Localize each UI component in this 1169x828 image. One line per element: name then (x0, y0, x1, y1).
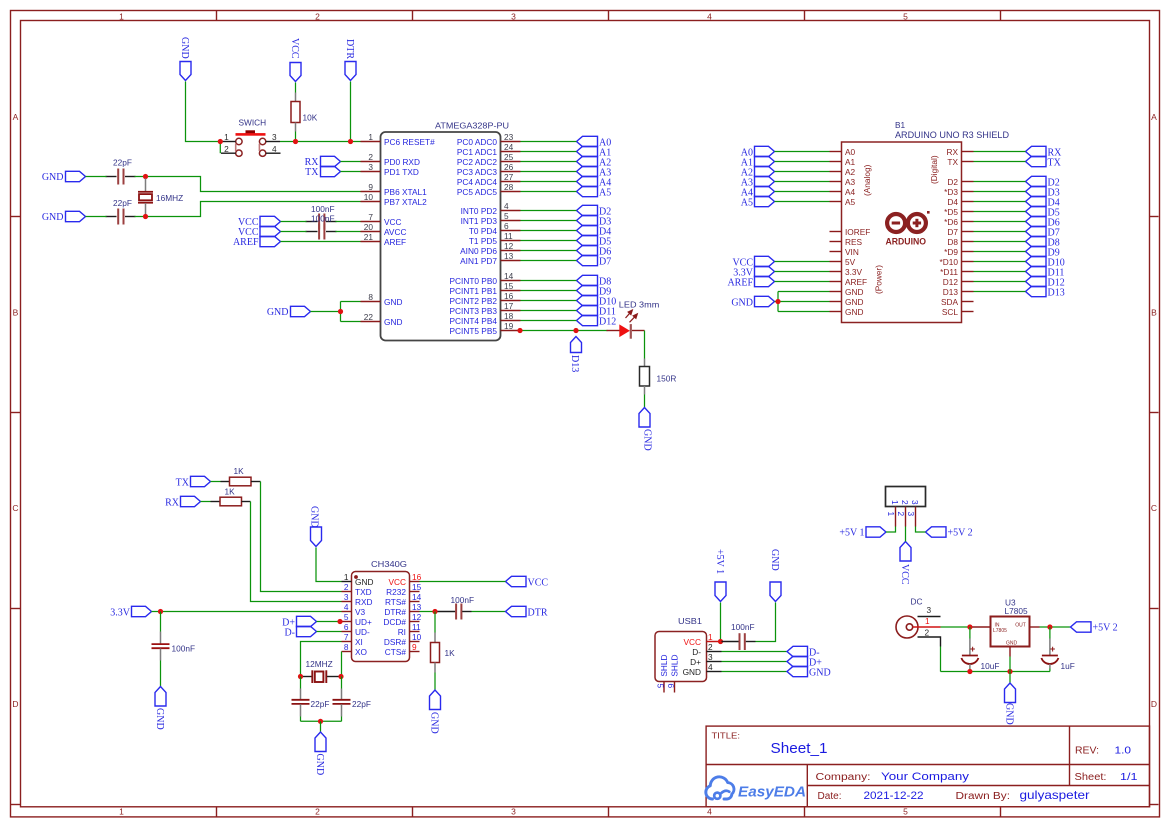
svg-text:Date:: Date: (818, 791, 842, 802)
svg-text:21: 21 (364, 232, 374, 242)
svg-text:D13: D13 (943, 287, 959, 297)
wire XO to crystal (341, 652, 343, 677)
svg-text:TX: TX (176, 478, 190, 489)
connector B1 body (842, 142, 962, 323)
svg-text:14: 14 (412, 592, 422, 602)
pin 9 PB6 XTAL1 (361, 182, 428, 197)
svg-text:RXD: RXD (355, 597, 373, 607)
svg-text:PCINT2 PB2: PCINT2 PB2 (450, 296, 498, 306)
svg-text:19: 19 (504, 321, 514, 331)
svg-text:2: 2 (315, 807, 320, 817)
svg-text:9: 9 (412, 642, 417, 652)
svg-text:17: 17 (504, 301, 514, 311)
junction D+ (337, 619, 342, 624)
pin 16 VCC (388, 572, 421, 587)
svg-text:AREF: AREF (845, 277, 867, 287)
svg-text:GND: GND (384, 317, 402, 327)
resistor R? 150R (640, 359, 677, 395)
svg-text:RI: RI (398, 627, 406, 637)
port GND (CH340 pin1) (309, 506, 322, 547)
svg-text:DTR: DTR (344, 39, 355, 59)
frame column numbers bottom (119, 807, 908, 817)
ports A0-A5 (shield left) (741, 146, 775, 208)
svg-text:1: 1 (368, 132, 373, 142)
svg-text:1: 1 (119, 12, 124, 22)
svg-text:1: 1 (119, 807, 124, 817)
svg-text:12MHZ: 12MHZ (306, 659, 333, 669)
pin 10 DSR# (384, 632, 422, 647)
svg-text:GND: GND (154, 708, 165, 730)
svg-text:22: 22 (364, 312, 374, 322)
pin 13 AIN1 PD7 (460, 251, 520, 266)
svg-text:D12: D12 (943, 277, 959, 287)
resistor R? 1K (TX) (211, 466, 261, 486)
svg-text:2: 2 (224, 144, 229, 154)
connector H? 1x3 header body (886, 487, 926, 507)
svg-text:Drawn By:: Drawn By: (956, 791, 1011, 802)
pin 3 RXD (342, 592, 373, 607)
wire DTR# to port (420, 611, 438, 613)
svg-text:5: 5 (903, 807, 908, 817)
wire GND down to cap (756, 603, 776, 642)
svg-text:14: 14 (504, 271, 514, 281)
svg-text:SDA: SDA (941, 297, 959, 307)
svg-text:TITLE:: TITLE: (712, 731, 741, 741)
junction D13 tap (573, 328, 578, 333)
capacitor C? 10uF polarized (961, 627, 999, 672)
frame column numbers top (119, 12, 908, 22)
wire 3.3V to V3 pin (152, 611, 342, 613)
frame ticks top (217, 11, 1001, 21)
svg-text:10: 10 (412, 632, 422, 642)
svg-text:D13: D13 (1048, 288, 1065, 299)
capacitor C? 22pF (bottom) (106, 198, 136, 225)
svg-text:GND: GND (845, 307, 863, 317)
junction rail reg gnd (1007, 669, 1012, 674)
pin 10 PB7 XTAL2 (361, 192, 428, 207)
pin 6 UD- (342, 622, 370, 637)
svg-text:D2: D2 (947, 177, 958, 187)
svg-text:VCC: VCC (528, 578, 549, 589)
svg-text:T0 PD4: T0 PD4 (469, 226, 498, 236)
port GND (under 22pF) (314, 732, 326, 775)
svg-text:CTS#: CTS# (385, 647, 407, 657)
ports D2-D13 (shield right) (1026, 176, 1065, 298)
svg-text:T1 PD5: T1 PD5 (469, 236, 498, 246)
svg-text:LED 3mm: LED 3mm (619, 300, 660, 310)
port GND (below 150R) (639, 408, 653, 451)
svg-text:12: 12 (504, 241, 514, 251)
header pin numbers 1,2,3 (rotated, outside) (886, 512, 916, 517)
svg-text:20: 20 (364, 222, 374, 232)
wires GND to three shield pins (775, 292, 830, 312)
svg-text:2: 2 (900, 500, 910, 505)
wire 1K to GND (434, 673, 436, 691)
pin 15 PCINT1 PB1 (450, 281, 521, 296)
wire XI to crystal (301, 642, 342, 677)
svg-text:D-: D- (284, 628, 295, 639)
port DTR (right) (506, 606, 548, 618)
svg-text:A5: A5 (599, 188, 611, 199)
B1 right pin names (940, 147, 959, 317)
svg-text:GND: GND (1004, 703, 1015, 725)
svg-text:3: 3 (927, 605, 932, 615)
wire gnd vertical (340, 302, 342, 322)
wire switch pin2 drop (219, 142, 221, 154)
connector DC jack (896, 597, 941, 647)
wire cap to corner row1 (135, 177, 361, 192)
svg-text:22pF: 22pF (352, 699, 371, 709)
svg-text:IOREF: IOREF (845, 227, 870, 237)
pin 27 PC4 ADC4 (457, 172, 521, 187)
junction rail 10uF (967, 669, 972, 674)
ports D2-D7 (577, 205, 612, 267)
svg-text:L7805: L7805 (993, 628, 1007, 634)
pin 2 D- (USB) (692, 642, 721, 657)
svg-text:3.3V: 3.3V (110, 608, 131, 619)
wire gnd-cap row2 (86, 216, 107, 218)
port GND (under 1K) (429, 690, 441, 734)
svg-text:Sheet_1: Sheet_1 (771, 740, 828, 757)
chip U1 ATMEGA328P-PU body (381, 132, 501, 341)
header pin names 1,2,3 (rotated, inside) (890, 500, 920, 505)
wire gnd bottom rail (941, 671, 1050, 673)
junction regulator out (1047, 624, 1052, 629)
ports D8-D12 (577, 275, 617, 327)
Arduino logo U? (886, 211, 930, 247)
svg-text:+5V 1: +5V 1 (714, 549, 725, 574)
svg-text:INT1 PD3: INT1 PD3 (461, 216, 498, 226)
svg-text:22pF: 22pF (113, 198, 132, 208)
svg-text:INT0 PD2: INT0 PD2 (461, 206, 498, 216)
wire VCC to 10K (295, 83, 297, 93)
svg-text:DTR: DTR (528, 608, 548, 619)
junction 3.3V cap tap (158, 609, 163, 614)
svg-text:5: 5 (656, 684, 666, 689)
wire LED down to resistor (644, 331, 646, 359)
pin 15 R232 (386, 582, 421, 597)
svg-text:3: 3 (708, 652, 713, 662)
port VCC (pin20) (238, 226, 281, 238)
wires ADC pins to A ports (521, 142, 577, 192)
svg-text:GND: GND (179, 37, 190, 59)
port TX (to ATMEGA pin3) (305, 166, 340, 178)
svg-text:1: 1 (344, 572, 349, 582)
svg-text:PC4 ADC4: PC4 ADC4 (457, 177, 498, 187)
port 3.3V (110, 606, 151, 618)
svg-text:A3: A3 (845, 177, 856, 187)
svg-text:3: 3 (272, 132, 277, 142)
svg-text:4: 4 (272, 144, 277, 154)
svg-text:PCINT4 PB4: PCINT4 PB4 (450, 316, 498, 326)
svg-text:Company:: Company: (816, 772, 871, 783)
svg-text:TX: TX (1048, 158, 1062, 169)
svg-text:4: 4 (707, 807, 712, 817)
svg-text:100nF: 100nF (172, 644, 196, 654)
junction gnd (338, 309, 343, 314)
svg-text:1K: 1K (225, 487, 236, 497)
svg-text:PC1 ADC1: PC1 ADC1 (457, 147, 498, 157)
svg-text:D: D (1151, 699, 1157, 709)
svg-text:*D10: *D10 (940, 257, 959, 267)
svg-text:23: 23 (504, 132, 514, 142)
junction crystal right (338, 674, 343, 679)
svg-text:AIN1 PD7: AIN1 PD7 (460, 256, 497, 266)
svg-text:*D6: *D6 (944, 217, 958, 227)
junction crystal left (298, 674, 303, 679)
svg-text:VCC: VCC (289, 38, 300, 59)
B1 left pin names (845, 147, 870, 317)
svg-text:GND: GND (309, 506, 320, 528)
svg-text:GND: GND (384, 297, 402, 307)
svg-text:1K: 1K (445, 648, 456, 658)
pin 23 PC0 ADC0 (457, 132, 521, 147)
svg-text:5: 5 (903, 12, 908, 22)
svg-text:1: 1 (708, 632, 713, 642)
svg-text:1: 1 (886, 512, 896, 517)
regulator U3 L7805 body (972, 598, 1040, 657)
svg-text:27: 27 (504, 172, 514, 182)
svg-text:16: 16 (412, 572, 422, 582)
svg-text:VCC: VCC (899, 564, 910, 585)
svg-text:GND: GND (42, 172, 64, 183)
svg-text:A: A (13, 112, 19, 122)
pin 4 GND (USB) (683, 662, 722, 677)
svg-text:RES: RES (845, 237, 863, 247)
resistor R? 1K (RX) (201, 487, 251, 506)
svg-text:D7: D7 (599, 257, 611, 268)
svg-text:24: 24 (504, 142, 514, 152)
svg-text:GND: GND (1006, 641, 1018, 647)
svg-text:7: 7 (344, 632, 349, 642)
port GND (crystal bottom) (42, 211, 86, 223)
wire header pin2 to VCC (905, 527, 907, 542)
svg-text:2021-12-22: 2021-12-22 (864, 790, 924, 802)
ports RX TX (shield right) (1026, 146, 1063, 168)
svg-text:2: 2 (708, 642, 713, 652)
wires power ports to shield (775, 262, 830, 282)
wire cap20 to pin (336, 231, 361, 233)
svg-text:GND: GND (314, 754, 325, 776)
port GND (pins 8/22) (267, 306, 311, 318)
svg-text:GND: GND (267, 307, 289, 318)
svg-text:C: C (12, 503, 18, 513)
wire to pin8 (341, 301, 361, 303)
port RX (1K input) (165, 496, 200, 508)
wire gnd-cap row1 (86, 176, 107, 178)
svg-text:4: 4 (707, 12, 712, 22)
wire switch pin3 to pin1 row (280, 141, 361, 143)
svg-text:GND: GND (769, 549, 780, 571)
wire VCC row20 (281, 231, 307, 233)
svg-text:8: 8 (368, 292, 373, 302)
wires A0-A5 to shield (775, 152, 830, 202)
frame ticks left (11, 217, 21, 805)
wire GND to junction (311, 311, 341, 313)
port D- (284, 626, 316, 638)
svg-text:+5V 2: +5V 2 (1093, 623, 1118, 634)
svg-text:(Digital): (Digital) (929, 155, 939, 184)
svg-text:2: 2 (344, 582, 349, 592)
svg-text:RTS#: RTS# (385, 597, 406, 607)
svg-text:3: 3 (511, 12, 516, 22)
junction regulator in (967, 624, 972, 629)
svg-text:5: 5 (504, 211, 509, 221)
svg-text:3: 3 (906, 512, 916, 517)
svg-text:9: 9 (368, 182, 373, 192)
svg-text:1K: 1K (234, 466, 245, 476)
svg-text:6: 6 (344, 622, 349, 632)
title block frame (706, 726, 1149, 807)
connector USB1 body (655, 632, 707, 682)
svg-text:DC: DC (911, 597, 923, 607)
wires USB data pins to ports (722, 652, 788, 672)
wire +5V1 down to VCC pin (720, 603, 722, 642)
wire DC pin2 down to rail (940, 647, 942, 672)
svg-text:L7805: L7805 (1005, 606, 1028, 616)
pin 1 GND (342, 572, 374, 587)
pin 1 PC6 RESET# (361, 132, 436, 147)
svg-text:PC6 RESET#: PC6 RESET# (384, 137, 435, 147)
svg-text:(Analog): (Analog) (862, 164, 872, 196)
svg-text:3: 3 (511, 807, 516, 817)
port D+ (USB right) (787, 656, 822, 668)
svg-text:TX: TX (947, 157, 958, 167)
header pin stubs 1,2,3 (896, 507, 916, 527)
svg-text:GND: GND (845, 297, 863, 307)
svg-text:Your Company: Your Company (881, 771, 970, 783)
svg-text:TX: TX (305, 167, 319, 178)
wire RX (341, 161, 361, 163)
pin 2 PD0 RXD (361, 152, 420, 167)
svg-text:13: 13 (412, 602, 422, 612)
wire GND to switch row (186, 82, 220, 142)
svg-text:VIN: VIN (845, 247, 859, 257)
svg-text:150R: 150R (657, 374, 677, 384)
svg-text:11: 11 (504, 231, 513, 241)
svg-text:4: 4 (344, 602, 349, 612)
svg-text:6: 6 (666, 684, 676, 689)
svg-text:2: 2 (315, 12, 320, 22)
svg-text:AREF: AREF (233, 237, 259, 248)
svg-text:D8: D8 (947, 237, 958, 247)
svg-text:D4: D4 (947, 197, 958, 207)
svg-text:1/1: 1/1 (1120, 771, 1138, 783)
svg-text:DTR#: DTR# (384, 607, 406, 617)
svg-text:PB6 XTAL1: PB6 XTAL1 (384, 187, 427, 197)
svg-text:D7: D7 (947, 227, 958, 237)
svg-text:DCD#: DCD# (383, 617, 406, 627)
capacitor C? 100nF (DTR) (438, 595, 506, 620)
frame row letters left (12, 112, 18, 709)
svg-text:3: 3 (368, 162, 373, 172)
wire RX 1K to RXD pin (251, 502, 342, 602)
svg-text:1uF: 1uF (1061, 661, 1075, 671)
svg-text:VCC: VCC (388, 577, 406, 587)
svg-text:*D11: *D11 (940, 267, 958, 277)
svg-text:*D3: *D3 (944, 187, 958, 197)
svg-text:10uF: 10uF (981, 661, 1000, 671)
svg-text:GND: GND (429, 712, 440, 734)
svg-text:12: 12 (412, 612, 422, 622)
pin 5 INT1 PD3 (461, 211, 521, 226)
svg-text:D13: D13 (569, 355, 580, 372)
pin 6 T0 PD4 (469, 221, 521, 236)
capacitor C? 22pF (left) (292, 677, 330, 722)
switch SWICH (221, 118, 281, 157)
B1 right pin stubs (962, 152, 974, 312)
resistor R? 1K (DTR pulldown) (431, 612, 456, 673)
pin 11 RI (398, 622, 421, 637)
svg-text:VCC: VCC (683, 637, 701, 647)
port VCC (top) (289, 38, 301, 82)
svg-text:gulyaspeter: gulyaspeter (1020, 788, 1090, 802)
wire regulator out (1040, 626, 1071, 628)
svg-text:A2: A2 (845, 167, 856, 177)
pin 2 TXD (342, 582, 372, 597)
capacitor C? 100nF (pin20 row) (306, 213, 337, 239)
pin 13 DTR# (384, 602, 421, 617)
svg-text:PB7 XTAL2: PB7 XTAL2 (384, 197, 427, 207)
svg-text:7: 7 (368, 212, 373, 222)
pin 11 T1 PD5 (469, 231, 521, 246)
svg-text:2: 2 (896, 512, 906, 517)
svg-text:22pF: 22pF (311, 699, 330, 709)
svg-text:25: 25 (504, 152, 514, 162)
pin 14 PCINT0 PB0 (450, 271, 521, 286)
port GND (USB area) (769, 549, 781, 602)
port 3.3V (shield) (733, 266, 774, 278)
svg-text:PCINT1 PB1: PCINT1 PB1 (450, 286, 498, 296)
svg-text:REV:: REV: (1075, 746, 1099, 757)
port +5V 2 (header) (926, 527, 973, 539)
wire DTR down (350, 82, 352, 142)
port VCC (CH340 pin16) (506, 576, 549, 588)
svg-text:USB1: USB1 (678, 616, 702, 626)
ports A0-A5 (ATMEGA right) (577, 136, 612, 198)
svg-text:SWICH: SWICH (239, 118, 267, 128)
svg-text:V3: V3 (355, 607, 366, 617)
svg-text:D-: D- (692, 647, 701, 657)
svg-text:A4: A4 (845, 187, 856, 197)
junction PB5 (517, 328, 522, 333)
junction DTR (432, 609, 437, 614)
svg-text:PCINT0 PB0: PCINT0 PB0 (450, 276, 498, 286)
capacitor C? 100nF (USB) (722, 622, 756, 650)
svg-text:GND: GND (355, 577, 373, 587)
svg-text:ARDUINO UNO R3 SHIELD: ARDUINO UNO R3 SHIELD (895, 130, 1009, 140)
svg-text:16: 16 (504, 291, 514, 301)
svg-text:ARDUINO: ARDUINO (886, 237, 927, 247)
wire VCC pin16 (420, 581, 506, 583)
port D13 (569, 337, 582, 373)
svg-text:1: 1 (925, 616, 930, 626)
svg-text:A1: A1 (845, 157, 856, 167)
svg-text:16MHZ: 16MHZ (156, 193, 183, 203)
svg-text:+: + (1050, 644, 1055, 654)
port GND (top left) (179, 37, 191, 81)
svg-text:UD-: UD- (355, 627, 370, 637)
svg-text:1: 1 (224, 132, 229, 142)
svg-text:*D9: *D9 (944, 247, 958, 257)
svg-text:100nF: 100nF (731, 622, 755, 632)
pin 22 GND (361, 312, 403, 327)
pins 5,6 SHLD (USB) (656, 655, 680, 693)
wire 10K to row (295, 132, 297, 142)
port AREF (pin21) (233, 236, 281, 248)
wires PD pins to D ports (521, 211, 577, 261)
svg-text:+5V 1: +5V 1 (839, 528, 864, 539)
